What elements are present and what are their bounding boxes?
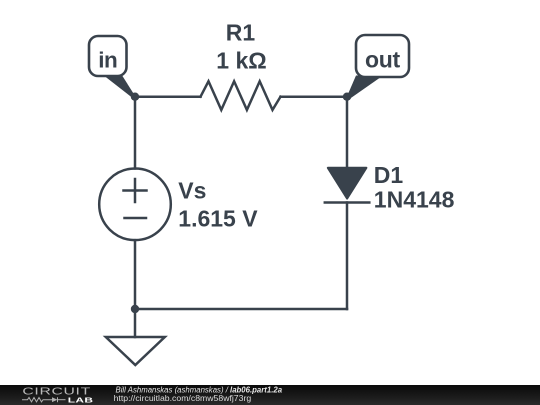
svg-text:LAB: LAB bbox=[68, 396, 93, 404]
svg-text:Vs: Vs bbox=[178, 178, 206, 204]
svg-text:out: out bbox=[365, 47, 400, 73]
svg-text:1.615 V: 1.615 V bbox=[178, 205, 258, 231]
svg-text:CIRCUIT: CIRCUIT bbox=[22, 385, 90, 396]
svg-text:http://circuitlab.com/c8mw58wf: http://circuitlab.com/c8mw58wfj73rg bbox=[114, 393, 252, 403]
svg-text:1N4148: 1N4148 bbox=[374, 186, 455, 212]
svg-text:R1: R1 bbox=[226, 20, 256, 46]
svg-text:in: in bbox=[98, 48, 117, 73]
svg-text:1 kΩ: 1 kΩ bbox=[216, 47, 266, 73]
svg-text:D1: D1 bbox=[374, 162, 404, 188]
